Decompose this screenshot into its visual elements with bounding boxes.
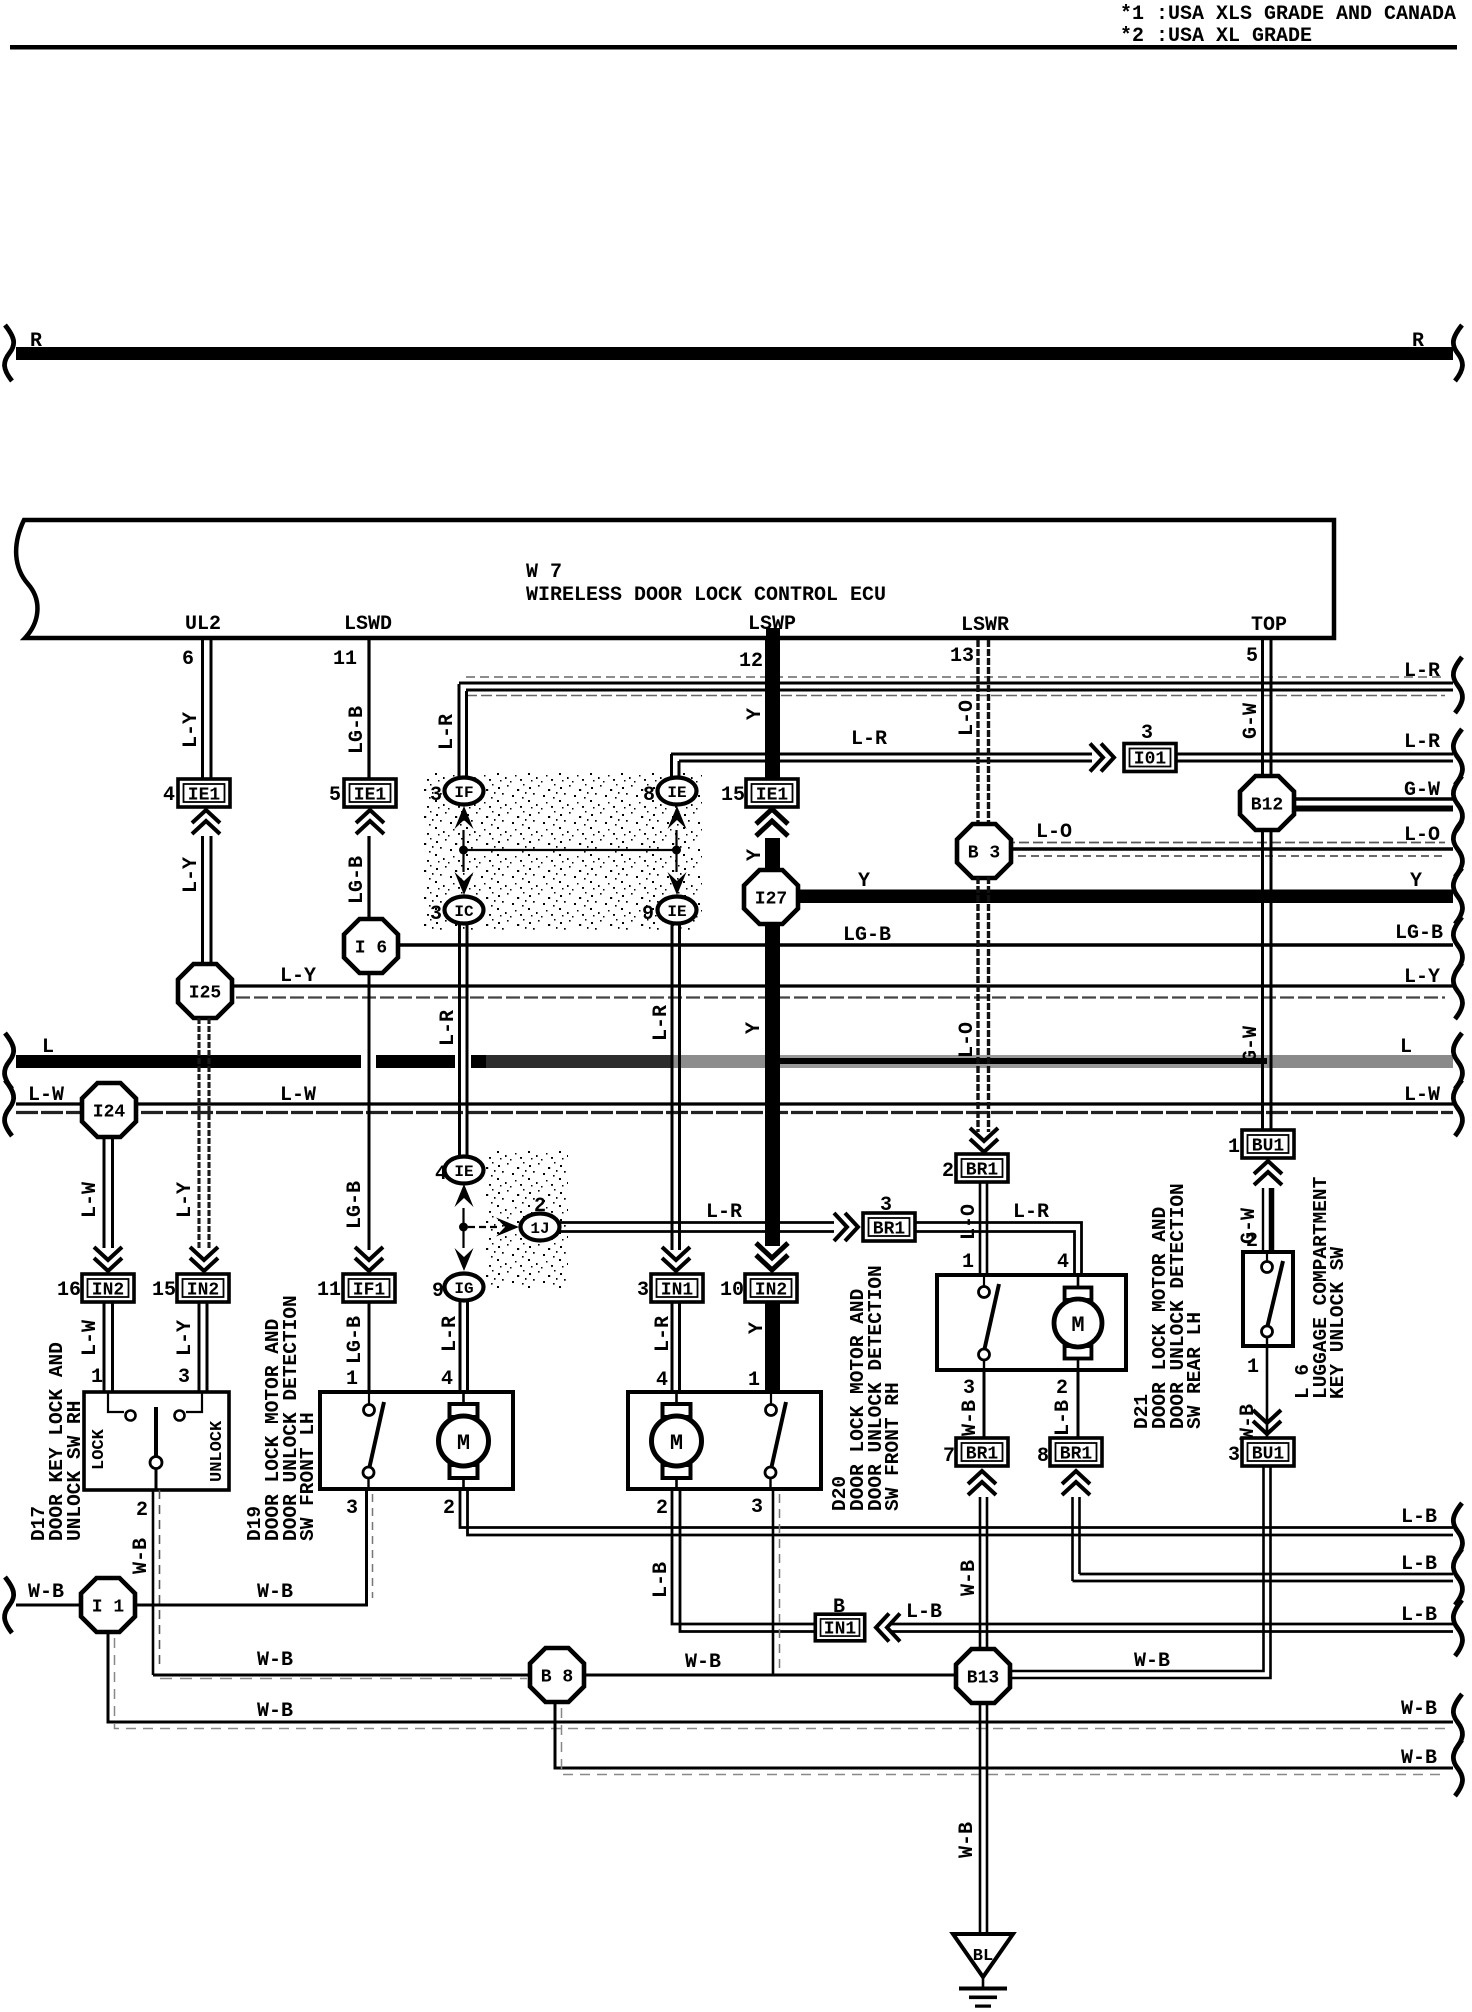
svg-text:LOCK: LOCK: [90, 1428, 109, 1470]
ground symbol: [959, 1987, 1007, 1991]
svg-text:LG-B: LG-B: [344, 1316, 367, 1364]
wire L bus thick: [16, 1054, 1453, 1069]
svg-text:Y: Y: [743, 1022, 766, 1034]
connector oval IJ: [521, 1214, 560, 1241]
wire Y bus thick from I27: [790, 890, 1453, 904]
wire Y to I27: [765, 838, 780, 874]
wire IE-4 to dot C: [462, 1208, 464, 1227]
wire B3 down to BR1-2: [978, 877, 989, 1132]
contact D19 switch bottom: [363, 1467, 374, 1478]
svg-text:3: 3: [880, 1194, 892, 1217]
connector oval IG: [445, 1274, 484, 1301]
svg-text:3: 3: [963, 1377, 975, 1400]
wire BR1-2 to D21 pin1: [980, 1182, 987, 1275]
junction B 3: [957, 824, 1011, 878]
svg-text:3: 3: [346, 1497, 358, 1520]
svg-text:5: 5: [329, 784, 341, 807]
svg-text:1J: 1J: [530, 1220, 549, 1238]
svg-text:B 3: B 3: [968, 844, 1000, 864]
connector chevron into BR1-3: [834, 1213, 858, 1241]
wire I6 to IF1 (LG-B): [368, 973, 371, 1250]
wire L-R col1 corner vertical: [459, 684, 467, 779]
wire L-R horizontal 1: [459, 677, 1453, 696]
connector oval IE pin8: [658, 778, 697, 805]
motor D21 M: [1077, 1275, 1080, 1288]
connector oval IC: [445, 897, 484, 924]
junction B 8: [530, 1648, 584, 1702]
connector chevron above IN1-3: [662, 1247, 690, 1271]
junction dot B: [672, 846, 681, 855]
contact D17 lock: [126, 1411, 136, 1421]
svg-text:IF1: IF1: [353, 1281, 386, 1301]
ground BL triangle: [953, 1934, 1013, 1977]
wire break brace left L-W: [5, 1080, 14, 1136]
wire BR1-3 to D21 pin4 corner: [915, 1223, 1082, 1276]
wire I27 down thick: [765, 924, 780, 1246]
svg-text:W-B: W-B: [257, 1649, 293, 1672]
arrow into IG: [455, 1248, 474, 1271]
wire break brace right L: [1453, 1033, 1462, 1089]
svg-text:L-B: L-B: [1052, 1400, 1075, 1436]
svg-text:B 8: B 8: [541, 1668, 573, 1688]
svg-text:LG-B: LG-B: [346, 856, 369, 904]
top border rule: [10, 45, 1457, 50]
svg-text:4: 4: [656, 1369, 668, 1392]
wire D21 switch to pin3: [983, 1360, 985, 1370]
svg-text:9: 9: [432, 1280, 444, 1303]
wire break brace R left: [5, 325, 14, 381]
wire D17 pin2 W-B down to B8 line: [153, 1490, 160, 1675]
connector IN2 pin 10: [745, 1274, 797, 1302]
connector chevron into IN1: [876, 1614, 900, 1642]
svg-text:L-W: L-W: [79, 1320, 102, 1356]
svg-text:L-O: L-O: [1404, 824, 1440, 847]
svg-text:LG-B: LG-B: [344, 1181, 367, 1229]
svg-text:IN1: IN1: [661, 1281, 694, 1301]
contact D17 unlock: [175, 1411, 185, 1421]
svg-text:BR1: BR1: [873, 1220, 906, 1240]
svg-text:BU1: BU1: [1252, 1137, 1285, 1157]
svg-text:L-R: L-R: [650, 1005, 673, 1041]
wire B8 down and right W-B full: [555, 1702, 1453, 1768]
connector chevron below BU1-1: [1254, 1161, 1282, 1185]
svg-text:1: 1: [91, 1366, 103, 1389]
svg-text:Y: Y: [1410, 870, 1422, 893]
motor D20 M: [675, 1392, 678, 1406]
wire break brace left L: [5, 1033, 14, 1089]
wire I25 to IN2-15 (L-Y): [199, 1018, 209, 1248]
connector chevron above BU1-3: [1253, 1410, 1281, 1434]
svg-text:BR1: BR1: [966, 1445, 999, 1465]
connector oval IE pin9: [658, 897, 697, 924]
svg-text:I01: I01: [1134, 750, 1167, 770]
svg-text:2: 2: [942, 1160, 954, 1183]
svg-text:I25: I25: [189, 984, 221, 1004]
svg-text:4: 4: [435, 1163, 447, 1186]
svg-text:IE: IE: [667, 784, 686, 802]
svg-text:2: 2: [1056, 1377, 1068, 1400]
connector BR1 pin 3: [863, 1213, 915, 1241]
svg-text:W-B: W-B: [130, 1538, 153, 1574]
op D19 door lock motor box: [320, 1392, 513, 1489]
wire break brace right W-B 1: [1453, 1694, 1462, 1750]
junction dot A: [459, 846, 468, 855]
contact D17 common: [150, 1457, 162, 1469]
wire L-R col2 corner vertical: [672, 754, 680, 779]
svg-text:*1 :USA XLS GRADE AND CANADA: *1 :USA XLS GRADE AND CANADA: [1120, 3, 1456, 26]
wire break brace R right: [1453, 325, 1462, 381]
lever D19 switch: [370, 1402, 385, 1467]
wire IG to D19 pin4: [460, 1301, 468, 1392]
svg-text:UNLOCK: UNLOCK: [208, 1420, 227, 1482]
wire G-W horizontal from B12: [1280, 799, 1453, 809]
junction I25: [178, 964, 232, 1018]
wire L-R horizontal 2 to I01: [671, 754, 1453, 761]
wire break brace right L-W: [1453, 1080, 1462, 1136]
svg-text:3: 3: [430, 903, 442, 926]
wire D17 pin1 lead: [108, 1392, 124, 1412]
junction B13: [956, 1649, 1010, 1703]
svg-text:M: M: [457, 1431, 470, 1456]
svg-text:W-B: W-B: [1401, 1747, 1437, 1770]
svg-text:G-W: G-W: [1404, 779, 1440, 802]
svg-text:1: 1: [748, 1369, 760, 1392]
connector IN1 pin B: [815, 1614, 864, 1641]
svg-text:IE1: IE1: [188, 786, 221, 806]
ground stem: [982, 1977, 985, 1987]
svg-text:*2 :USA XL GRADE: *2 :USA XL GRADE: [1120, 25, 1312, 48]
svg-text:3: 3: [751, 1496, 763, 1519]
contact D19 switch top: [368, 1392, 370, 1404]
wire TOP G-W upper: [1263, 640, 1272, 778]
wire L-B bus 3 from D20 pin2: [672, 1489, 818, 1632]
svg-text:L-R: L-R: [1404, 660, 1440, 683]
stipple noise region upper: [424, 773, 702, 930]
arrow into IC: [455, 872, 474, 895]
wire BU1-1 to L6 pin2: [1263, 1188, 1272, 1252]
svg-text:L-R: L-R: [1404, 731, 1440, 754]
svg-text:L-W: L-W: [1404, 1084, 1440, 1107]
wire break brace right LG-B: [1453, 917, 1462, 973]
svg-text:L-R: L-R: [851, 728, 887, 751]
svg-text:UNLOCK SW RH: UNLOCK SW RH: [64, 1401, 86, 1541]
svg-text:B13: B13: [967, 1669, 999, 1689]
wire break brace right L-B 1: [1453, 1503, 1462, 1559]
svg-text:SW FRONT LH: SW FRONT LH: [297, 1412, 319, 1541]
svg-text:IE: IE: [667, 903, 686, 921]
connector IE1 pin 5: [344, 779, 396, 807]
svg-text:Y: Y: [744, 708, 767, 720]
svg-text:BR1: BR1: [1060, 1445, 1093, 1465]
wire D17 pin3 lead: [186, 1392, 202, 1412]
svg-text:IE: IE: [454, 1163, 473, 1181]
svg-text:L-W: L-W: [280, 1084, 316, 1107]
wire break brace right L-B 3: [1453, 1600, 1462, 1656]
svg-text:L-Y: L-Y: [180, 857, 203, 893]
wire IF to dot: [462, 830, 464, 850]
svg-text:Y: Y: [858, 870, 870, 893]
wire dot C dashes to IJ: [468, 1226, 497, 1228]
svg-text:IF: IF: [454, 784, 473, 802]
connector chevron below BR1-8: [1062, 1471, 1090, 1495]
junction I27: [744, 870, 798, 924]
wire D21 pin3 W-B down: [983, 1370, 986, 1440]
wire L6 pin1 W-B down: [1266, 1346, 1269, 1440]
wire dot A down: [462, 850, 464, 872]
svg-text:L-O: L-O: [956, 700, 979, 736]
svg-text:9: 9: [642, 903, 654, 926]
wire dot C down: [462, 1227, 464, 1248]
svg-text:WIRELESS DOOR LOCK CONTROL ECU: WIRELESS DOOR LOCK CONTROL ECU: [526, 584, 886, 607]
junction I6: [344, 919, 398, 973]
connector BR1 pin 7: [956, 1438, 1008, 1466]
arrow into IF: [455, 806, 474, 829]
svg-text:4: 4: [441, 1368, 453, 1391]
svg-text:R: R: [1412, 330, 1424, 353]
contact D21 switch top: [983, 1275, 985, 1286]
arrow into IE-4: [455, 1184, 474, 1207]
lever D17 common: [154, 1407, 158, 1456]
lever D20 switch: [772, 1402, 787, 1467]
junction I24: [82, 1083, 136, 1137]
connector chevron below IE1-5: [356, 810, 384, 834]
arrow into IJ: [496, 1218, 519, 1237]
wire BR1-8 down to L-B bus 2: [1073, 1497, 1080, 1581]
wire dot B down: [675, 850, 677, 872]
svg-text:LSWD: LSWD: [344, 613, 392, 636]
svg-text:BL: BL: [973, 1947, 993, 1966]
wire IJ to BR1-3 L-R: [559, 1223, 834, 1232]
svg-text:G-W: G-W: [1240, 703, 1263, 739]
connector thick chevron below IE1-15: [756, 809, 788, 836]
connector chevron above IN2-15: [190, 1247, 218, 1271]
svg-text:BU1: BU1: [1252, 1445, 1285, 1465]
op D20 door lock motor box: [628, 1392, 821, 1489]
svg-text:L-B: L-B: [1401, 1553, 1437, 1576]
wire L-W horizontal: [16, 1104, 1453, 1113]
wire I24 to IN2-16 (L-W): [104, 1136, 113, 1248]
svg-text:UL2: UL2: [185, 613, 221, 636]
wire L6 to pin1: [1266, 1337, 1268, 1346]
wire break brace left W-B: [5, 1577, 14, 1633]
wire R bus (thick): [16, 347, 1453, 360]
wire D20 pin3 down to B8-B13 line: [772, 1489, 775, 1675]
wire IN2-10 to D20 pin1 thick: [765, 1302, 780, 1392]
svg-text:L-O: L-O: [956, 1022, 979, 1058]
connector chevron below BR1-7: [968, 1471, 996, 1495]
contact L6 top: [1266, 1252, 1268, 1261]
svg-text:11: 11: [317, 1279, 341, 1302]
svg-text:2: 2: [1246, 1230, 1258, 1253]
svg-text:L-Y: L-Y: [1404, 966, 1440, 989]
svg-text:W-B: W-B: [959, 1400, 982, 1436]
wire dot link horizontal: [464, 849, 677, 851]
op ECU W7 box outline: [16, 520, 1334, 638]
arrow into IE-8: [668, 806, 687, 829]
wire LSWP Y thick upper: [766, 628, 780, 640]
svg-text:8: 8: [643, 784, 655, 807]
svg-text:L-R: L-R: [436, 714, 459, 750]
connector chevron into I01: [1090, 744, 1114, 772]
svg-text:SW REAR LH: SW REAR LH: [1184, 1312, 1206, 1429]
connector IE1 pin 4: [178, 779, 230, 807]
svg-text:Y: Y: [744, 849, 767, 861]
connector oval IF: [445, 778, 484, 805]
svg-text:IN2: IN2: [92, 1281, 124, 1301]
svg-text:15: 15: [721, 784, 745, 807]
wire B13 down to ground: [980, 1703, 987, 1933]
svg-text:R: R: [30, 330, 42, 353]
wire L-Y to I25: [203, 836, 212, 967]
wire IE-9 down to IN1-3: [672, 924, 680, 1250]
svg-text:IN2: IN2: [187, 1281, 219, 1301]
connector chevron above IN2-16: [94, 1247, 122, 1271]
arrow into IE-9: [668, 872, 687, 895]
wire IN2-16 to D17 pin1: [104, 1302, 113, 1392]
wire BU1-3 down to B13 branch: [1010, 1466, 1271, 1678]
svg-text:2: 2: [443, 1497, 455, 1520]
svg-text:I27: I27: [755, 890, 787, 910]
wire W-B left brace to I1: [16, 1604, 83, 1607]
wire D21 pin2 L-B down: [1077, 1370, 1080, 1440]
svg-text:13: 13: [950, 645, 974, 668]
svg-text:SW FRONT RH: SW FRONT RH: [882, 1382, 904, 1511]
connector chevron above BR1-2: [970, 1128, 998, 1152]
svg-text:LG-B: LG-B: [843, 924, 891, 947]
contact D20 switch top: [770, 1392, 772, 1404]
wire L-B bus 1 from D19 pin2: [460, 1489, 1453, 1535]
svg-text:B12: B12: [1251, 796, 1283, 816]
svg-text:3: 3: [430, 784, 442, 807]
svg-text:KEY UNLOCK SW: KEY UNLOCK SW: [1327, 1247, 1349, 1399]
svg-text:L-Y: L-Y: [280, 965, 316, 988]
svg-text:5: 5: [1246, 645, 1258, 668]
op D21 door lock motor box: [937, 1275, 1126, 1370]
svg-text:11: 11: [333, 648, 357, 671]
wire IN1-3 to D20 pin4: [672, 1302, 680, 1392]
wire D17pin2 horizontal to B8: [153, 1674, 533, 1677]
svg-text:I24: I24: [93, 1103, 126, 1123]
wire L-B bus 2 to right: [1073, 1574, 1454, 1581]
connector BU1 pin 1: [1242, 1130, 1294, 1158]
svg-text:IG: IG: [454, 1280, 473, 1298]
connector IE1 pin 15: [746, 779, 798, 807]
svg-text:L-Y: L-Y: [174, 1182, 197, 1218]
wire LSWD LG-B upper: [367, 640, 370, 779]
wire UL2 L-Y upper double: [203, 640, 212, 779]
connector thick chevron above IN2-10: [756, 1243, 788, 1270]
lever D21 switch: [985, 1284, 1000, 1349]
svg-text:IE1: IE1: [756, 786, 789, 806]
wire break brace right L-O: [1453, 821, 1462, 877]
connector BU1 pin 3: [1242, 1438, 1294, 1466]
svg-text:7: 7: [943, 1445, 955, 1468]
svg-text:1: 1: [962, 1251, 974, 1274]
wire break brace right L-Y: [1453, 963, 1462, 1019]
svg-text:L-R: L-R: [652, 1316, 675, 1352]
svg-text:I 1: I 1: [92, 1598, 125, 1618]
svg-text:L-R: L-R: [439, 1316, 462, 1352]
connector BR1 pin 8: [1050, 1438, 1102, 1466]
svg-text:TOP: TOP: [1251, 614, 1287, 637]
wire D17 common to pin2: [155, 1469, 158, 1491]
svg-text:W-B: W-B: [257, 1700, 293, 1723]
svg-text:1: 1: [346, 1368, 358, 1391]
svg-text:W-B: W-B: [956, 1822, 979, 1858]
connector IN1 pin 3: [651, 1274, 703, 1302]
contact D20 switch bottom: [765, 1467, 776, 1478]
connector IN2 pin 16: [82, 1274, 134, 1302]
connector chevron above IF1: [355, 1247, 383, 1271]
svg-text:W-B: W-B: [958, 1560, 981, 1596]
contact D21 switch bottom: [979, 1349, 990, 1360]
wire break brace right Y: [1453, 868, 1462, 924]
svg-text:2: 2: [136, 1499, 148, 1522]
wire D19 switch to pin3: [367, 1478, 369, 1489]
connector chevron below IE1-4: [192, 810, 220, 834]
wire LSWR L-O upper: [978, 640, 989, 827]
wire IF1 to D19 pin1: [368, 1302, 371, 1392]
svg-text:L: L: [42, 1036, 54, 1059]
wire break brace right L-R 1: [1453, 657, 1462, 713]
svg-text:3: 3: [1228, 1444, 1240, 1467]
wire LG-B horizontal from I6: [396, 943, 1453, 947]
svg-text:M: M: [670, 1431, 683, 1456]
wire break brace right L-B 2: [1453, 1549, 1462, 1605]
svg-text:8: 8: [1037, 1445, 1049, 1468]
svg-text:W-B: W-B: [1134, 1650, 1170, 1673]
svg-text:1: 1: [1228, 1136, 1240, 1159]
svg-text:15: 15: [152, 1279, 176, 1302]
svg-text:Y: Y: [746, 1322, 769, 1334]
svg-text:BR1: BR1: [966, 1161, 999, 1181]
wire IN2-15 to D17 pin3: [199, 1302, 207, 1392]
wire break brace right L-R 2: [1453, 729, 1462, 785]
wire D20 switch to pin3: [769, 1478, 771, 1489]
lever L6: [1268, 1261, 1284, 1326]
wire I1 to D19 pin3: [135, 1490, 367, 1605]
svg-text:L-B: L-B: [906, 1601, 942, 1624]
wire LG-B to I6: [367, 836, 370, 922]
wire L-O horizontal from B3: [1000, 843, 1453, 857]
svg-text:IE1: IE1: [354, 786, 387, 806]
svg-text:I 6: I 6: [355, 939, 387, 959]
svg-text:3: 3: [637, 1279, 649, 1302]
svg-text:L-W: L-W: [28, 1084, 64, 1107]
connector IF1: [343, 1274, 395, 1302]
svg-text:W-B: W-B: [28, 1581, 64, 1604]
svg-text:L-B: L-B: [650, 1562, 673, 1598]
svg-text:IN1: IN1: [824, 1620, 857, 1640]
svg-text:IC: IC: [454, 903, 474, 921]
svg-text:W-B: W-B: [685, 1651, 721, 1674]
motor D19 M: [462, 1392, 465, 1406]
svg-text:L-Y: L-Y: [180, 712, 203, 748]
op L6 luggage key switch box: [1243, 1252, 1293, 1346]
stipple noise region lower: [486, 1150, 568, 1288]
svg-text:L-W: L-W: [79, 1182, 102, 1218]
junction I 1: [81, 1578, 135, 1632]
wire IN1 to right L-B: [891, 1624, 1453, 1632]
svg-text:16: 16: [57, 1279, 81, 1302]
svg-text:L: L: [1400, 1036, 1412, 1059]
wire B12 down to BU1-1: [1263, 829, 1272, 1131]
svg-text:LG-B: LG-B: [1395, 922, 1443, 945]
junction dot C: [459, 1223, 468, 1232]
svg-text:LG-B: LG-B: [346, 706, 369, 754]
svg-text:4: 4: [1057, 1251, 1069, 1274]
wire I1 down and right W-B full: [108, 1632, 1453, 1722]
